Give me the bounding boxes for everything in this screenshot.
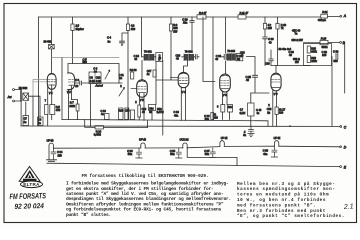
svg-text:220k: 220k	[311, 60, 317, 63]
resistor R9 on rail	[197, 15, 206, 19]
svg-text:C 36: C 36	[127, 149, 133, 153]
bus line upper	[62, 120, 268, 127]
resistor R3	[126, 17, 129, 120]
capacitor C8 box	[38, 117, 44, 126]
resistor R21 on rail	[321, 14, 328, 18]
svg-text:R 11 47: R 11 47	[240, 11, 249, 15]
heater bump V3 UF42	[136, 143, 145, 158]
svg-text:50n: 50n	[205, 152, 210, 156]
svg-text:UCH 21: UCH 21	[180, 137, 190, 141]
heater bump V1 UF42	[47, 143, 57, 161]
svg-text:70-902: 70-902	[185, 51, 193, 54]
svg-text:V 3: V 3	[140, 98, 144, 102]
wire vertical x162.8	[162, 61, 164, 136]
svg-text:0,47M: 0,47M	[94, 133, 102, 137]
svg-text:10 W., og ben nr.4 forbindes: 10 W., og ben nr.4 forbindes	[237, 198, 326, 203]
svg-text:satsens punkt “A” med lid V. v: satsens punkt “A” med lid V. ved C5n, og…	[66, 191, 224, 197]
svg-text:UF 42: UF 42	[139, 138, 146, 142]
wire vertical x255 C25	[247, 57, 270, 94]
wire vertical x344.5	[344, 43, 346, 93]
svg-text:V 1: V 1	[49, 91, 53, 95]
svg-text:despndingen til Skyggekasserne: despndingen til Skyggekassernes blanding…	[66, 196, 231, 202]
svg-text:4-20: 4-20	[96, 80, 102, 83]
capacitor C27 box	[248, 93, 254, 126]
svg-text:100: 100	[322, 54, 327, 57]
tube V5	[220, 74, 231, 105]
resistor R5 cluster under V1	[45, 105, 55, 127]
svg-text:10n: 10n	[183, 21, 188, 25]
resistor R16 under V6	[275, 107, 278, 126]
wire vertical x38.5	[38, 17, 40, 126]
svg-text:UF 41: UF 41	[274, 136, 281, 140]
svg-text:med forsatsens punkt “B”.: med forsatsens punkt “B”.	[237, 203, 316, 208]
transformer BH902	[21, 90, 40, 127]
trimmer cap block C9 C10	[89, 72, 101, 84]
svg-text:Omskifteren afbryder ledningen: Omskifteren afbryder ledningen mellem fu…	[66, 201, 224, 207]
svg-text:R 21: R 21	[322, 10, 328, 14]
ELTRA logo	[19, 167, 42, 188]
wire oscillator line y63.5	[73, 64, 120, 84]
svg-text:100: 100	[279, 112, 284, 115]
terminal E	[340, 165, 347, 169]
svg-text:C 30: C 30	[333, 51, 339, 54]
resistor R12 on rail drop	[263, 17, 268, 66]
decoupling row under V3	[105, 108, 135, 120]
svg-text:470: 470	[56, 108, 61, 112]
trimmer arrow 1	[105, 70, 110, 79]
text paragraph right	[237, 182, 345, 219]
antenna terminals	[13, 89, 21, 102]
tube V4	[171, 72, 189, 120]
resistor R22 1M	[211, 113, 214, 120]
svg-text:1W: 1W	[173, 29, 177, 33]
svg-text:70-901: 70-901	[144, 51, 152, 54]
svg-text:FM forsatsens tilkobling til E: FM forsatsens tilkobling til EKSTRAKTOR …	[82, 173, 209, 179]
terminal A	[340, 14, 347, 18]
terminal D	[340, 146, 347, 150]
svg-text:V 2: V 2	[67, 90, 71, 94]
wire top supply rail	[39, 15, 340, 18]
network box with R18 R19	[304, 44, 332, 66]
tube V6	[271, 66, 281, 127]
svg-text:Mellem ben nr.3 og 4 på Skygge: Mellem ben nr.3 og 4 på Skygge-	[237, 182, 336, 187]
svg-text:“E”, og punkt “C” smelteforbin: “E”, og punkt “C” smelteforbindes.	[237, 214, 345, 219]
capacitor C30	[336, 54, 338, 60]
svg-text:500: 500	[83, 60, 88, 64]
svg-text:Aereal: Aereal	[95, 84, 104, 87]
svg-text:R14: R14	[228, 106, 233, 109]
svg-text:ELTRA: ELTRA	[23, 182, 40, 187]
capacitor C4	[120, 33, 128, 46]
svg-text:kassens spændingsomskifter mon: kassens spændingsomskifter mon-	[237, 187, 336, 192]
svg-text:teres en modstand på 110s Ohm: teres en modstand på 110s Ohm	[237, 193, 329, 198]
svg-text:100: 100	[131, 27, 136, 31]
capacitor C37	[210, 148, 216, 157]
svg-text:220: 220	[268, 27, 273, 30]
tube V2 half envelope	[68, 73, 75, 120]
svg-text:V 6: V 6	[274, 92, 278, 96]
wire vertical x203 grid V5	[203, 17, 215, 82]
svg-text:I forbindelse med Skyggekasser: I forbindelse med Skyggekassernes bølgel…	[66, 181, 229, 187]
svg-text:C 6: C 6	[75, 78, 79, 82]
svg-text:UF 42: UF 42	[47, 139, 54, 143]
heater bump V4 UCH21	[176, 143, 237, 166]
svg-text:40n: 40n	[174, 114, 179, 117]
text paragraph center	[66, 181, 231, 218]
svg-text:V 5: V 5	[223, 93, 227, 97]
tube V3	[131, 80, 147, 121]
svg-text:R10: R10	[119, 109, 124, 112]
svg-text:punkt “B” sluttes.: punkt “B” sluttes.	[66, 212, 111, 218]
wire vertical x225 to IF3	[224, 17, 226, 53]
RC cluster under V3	[138, 105, 156, 121]
wire vertical x62	[61, 58, 63, 120]
IF transformer T1 70-901	[142, 51, 163, 105]
terminal C	[289, 125, 347, 129]
text heading center	[82, 173, 209, 179]
svg-text:C 34: C 34	[57, 150, 63, 154]
svg-text:Ben nr.3 forbindes med punkt: Ben nr.3 forbindes med punkt	[237, 209, 326, 214]
svg-text:1M: 1M	[214, 117, 217, 120]
ground rail bottom	[47, 163, 340, 166]
svg-text:C19: C19	[125, 109, 130, 112]
svg-text:R4 68: R4 68	[130, 69, 137, 72]
resistor R6	[156, 17, 178, 80]
svg-text:50n: 50n	[170, 152, 175, 156]
svg-text:BH 902: BH 902	[19, 86, 28, 90]
svg-text:C 37: C 37	[204, 149, 210, 153]
wire vertical x90.6	[90, 84, 92, 127]
resistor R17 0,47M	[85, 120, 148, 129]
svg-text:70-903: 70-903	[227, 50, 235, 53]
wire vertical x332	[331, 57, 333, 127]
svg-text:C 4: C 4	[107, 36, 111, 40]
svg-text:V 4: V 4	[182, 90, 186, 94]
IF transformer T2 70-902	[182, 54, 199, 73]
svg-text:C 38: C 38	[263, 149, 269, 153]
trimmer arrow 2	[119, 88, 124, 97]
wire vertical x51.5	[51, 17, 53, 74]
heater bump V6 UF41	[271, 141, 279, 157]
cathode cluster under V5	[221, 105, 233, 120]
svg-text:3-13: 3-13	[90, 80, 96, 83]
wire x33 down	[32, 96, 34, 126]
IF transformer T3 70-903	[222, 54, 243, 75]
svg-text:150: 150	[58, 154, 63, 158]
resistor R7	[72, 100, 80, 120]
bus line lower	[21, 125, 340, 127]
wire AFC grey	[52, 57, 120, 59]
heater bump V5 UF41	[220, 141, 224, 147]
capacitor C6 series	[75, 81, 122, 85]
resistor R4	[131, 72, 134, 79]
tube V1	[47, 74, 56, 105]
svg-text:20μ/bw: 20μ/bw	[76, 27, 84, 31]
capacitor C28	[269, 50, 310, 66]
svg-text:400 μA: 400 μA	[318, 18, 326, 22]
svg-text:og forbindelsespunktet for EC9: og forbindelsespunktet for EC9-RX1- og C…	[66, 207, 222, 213]
resistor R20 and B rail	[304, 40, 340, 44]
svg-text:220k: 220k	[69, 104, 75, 108]
capacitor C7	[23, 102, 29, 126]
svg-text:Ant: Ant	[7, 95, 12, 99]
svg-text:50n: 50n	[128, 152, 133, 156]
wire vertical x141.5	[141, 17, 143, 51]
resistor R2	[68, 17, 74, 73]
capacitor C31 to ground	[248, 126, 254, 136]
svg-text:FM FORSATS: FM FORSATS	[9, 191, 46, 201]
svg-text:40n: 40n	[263, 152, 268, 156]
svg-text:C 38: C 38	[170, 149, 176, 153]
trimmer L1	[49, 45, 55, 49]
svg-text:600Ω: 600Ω	[322, 46, 328, 49]
svg-text:0,1M: 0,1M	[240, 112, 246, 115]
heater wire	[53, 146, 339, 148]
svg-text:R 9 47: R 9 47	[199, 11, 207, 15]
wire vertical x213	[212, 17, 214, 120]
svg-text:R 20: R 20	[321, 36, 327, 40]
terminal B	[340, 41, 346, 45]
resistor R16	[276, 17, 279, 66]
svg-text:600k: 600k	[311, 50, 317, 53]
svg-text:C28: C28	[265, 63, 270, 66]
wire grid V1	[33, 80, 47, 97]
svg-text:92 20 024: 92 20 024	[14, 201, 44, 211]
svg-text:UF 41: UF 41	[221, 136, 228, 140]
capacitor C17 cluster	[153, 70, 156, 77]
svg-text:500: 500	[334, 60, 339, 63]
resistor R11 on rail	[238, 15, 246, 19]
svg-text:2W: 2W	[295, 61, 299, 64]
capacitor C20	[190, 17, 194, 50]
svg-text:R 7: R 7	[70, 100, 74, 104]
svg-text:2.1: 2.1	[343, 203, 354, 211]
svg-text:600 Ω 2W: 600 Ω 2W	[292, 39, 304, 42]
svg-text:30 402: 30 402	[44, 40, 52, 44]
svg-text:get en ekstra omskifter, der i: get en ekstra omskifter, der i FM stilli…	[66, 186, 214, 192]
